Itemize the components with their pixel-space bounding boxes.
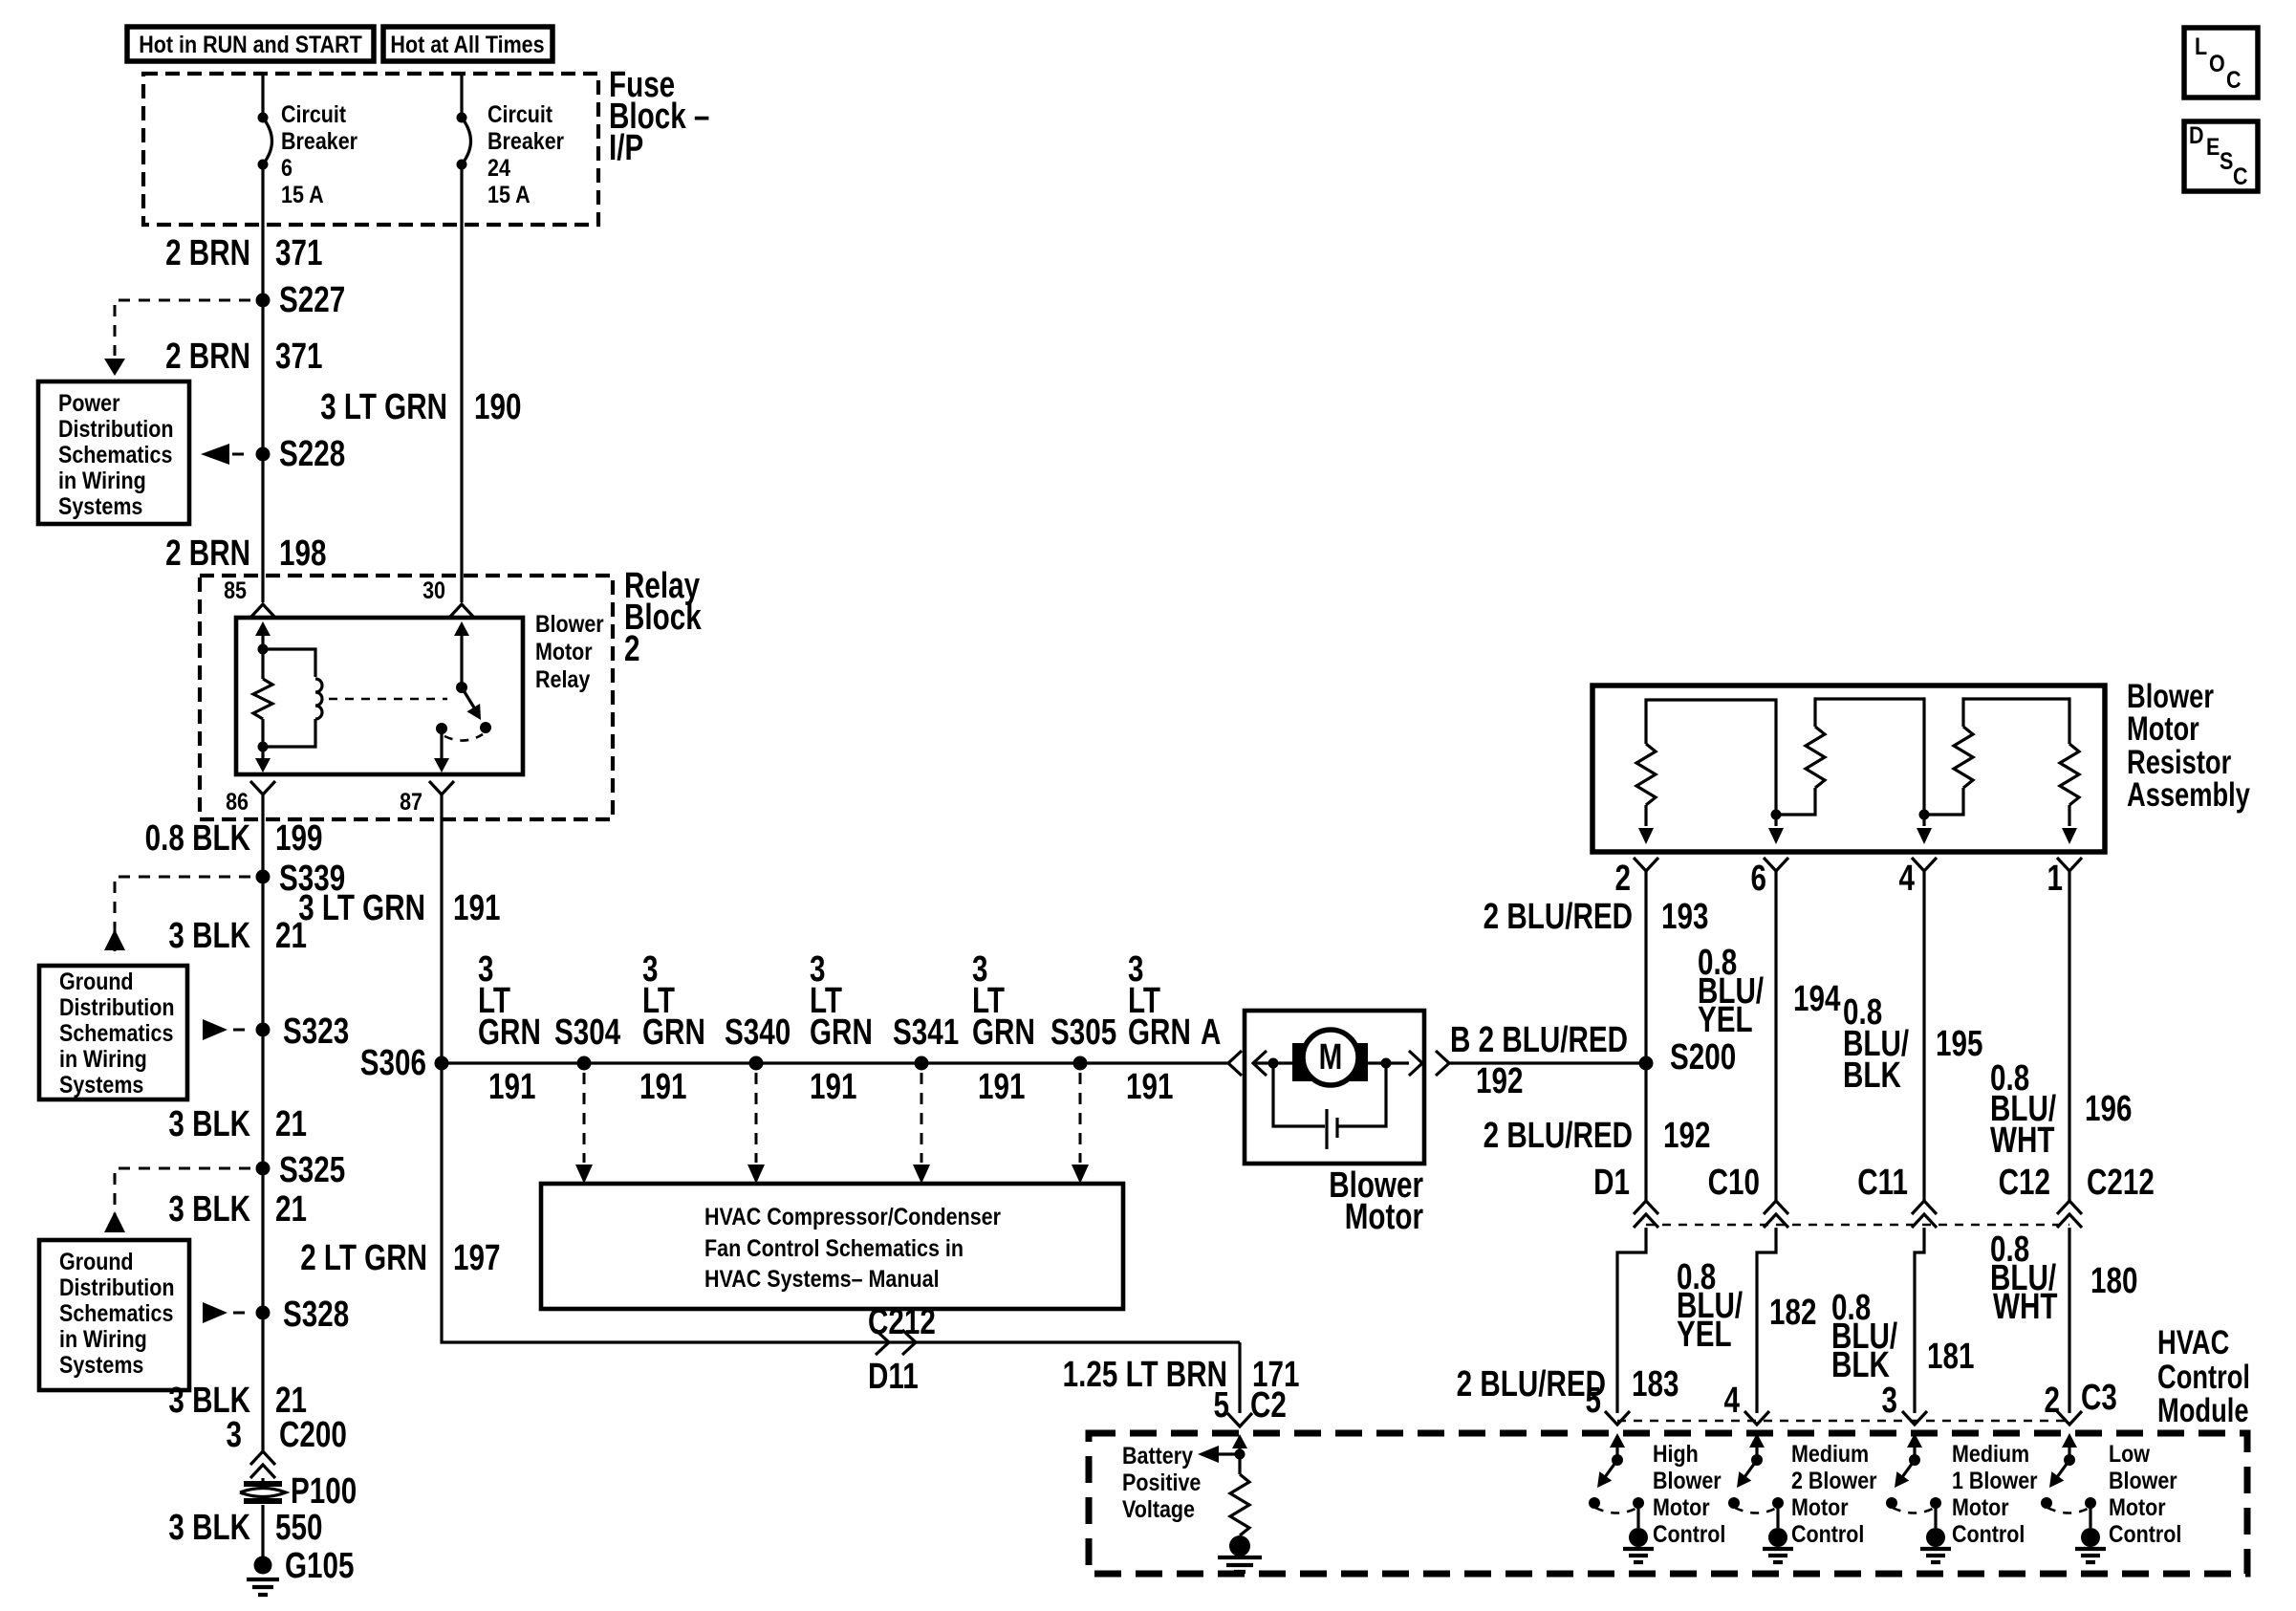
svg-text:S328: S328 — [283, 1295, 349, 1335]
wire: 0.8 BLU/BLK 181 from C11 to module pin 3 — [1915, 1228, 1924, 1413]
svg-text:S228: S228 — [279, 434, 345, 474]
svg-text:D1: D1 — [1593, 1163, 1630, 1203]
relay actuation dashed link — [329, 698, 447, 701]
Blower Motor outline — [1245, 1011, 1424, 1237]
svg-text:Hot at All Times: Hot at All Times — [390, 31, 544, 57]
wire: 3 BLK 21 from S339 to S323 — [261, 877, 264, 1030]
svg-text:Motor: Motor — [1791, 1493, 1849, 1520]
HVAC Control Module dashed enclosure — [1089, 1324, 2250, 1574]
svg-text:181: 181 — [1927, 1337, 1974, 1377]
splice S227 — [256, 280, 346, 320]
svg-text:Low: Low — [2109, 1440, 2151, 1467]
motor suppression capacitor — [1327, 1109, 1337, 1149]
svg-text:192: 192 — [1476, 1061, 1523, 1101]
wire: 2 LT GRN 197 from S306 down to C212 — [442, 1063, 1240, 1342]
svg-text:3 LT GRN: 3 LT GRN — [298, 888, 425, 928]
svg-text:196: 196 — [2085, 1089, 2132, 1129]
relay coil winding — [263, 649, 322, 747]
svg-text:197: 197 — [453, 1238, 500, 1278]
connector C3 boundary dashed line — [1617, 1420, 2069, 1423]
internal pull resistor — [1230, 1454, 1249, 1535]
svg-text:Ground: Ground — [59, 1248, 134, 1274]
svg-text:6: 6 — [1751, 859, 1766, 899]
svg-text:180: 180 — [2090, 1261, 2137, 1301]
svg-text:in Wiring: in Wiring — [58, 467, 146, 493]
svg-text:Systems: Systems — [58, 492, 142, 519]
svg-text:in Wiring: in Wiring — [59, 1325, 147, 1352]
wire label 3 BLK 21 — [168, 1189, 307, 1230]
svg-text:2: 2 — [624, 629, 639, 669]
svg-text:G105: G105 — [285, 1546, 354, 1586]
svg-text:3: 3 — [227, 1415, 242, 1455]
svg-text:0.8 BLK: 0.8 BLK — [145, 818, 251, 859]
wire: 2 BRN 198 from S228 to relay pin 85 — [261, 454, 264, 602]
resistor assembly pin 2 connector — [1615, 858, 1658, 899]
blower motor internal lead A — [1253, 1061, 1292, 1064]
dashed branch from S227 to Power Distribution reference — [104, 300, 250, 376]
svg-text:C3: C3 — [2081, 1378, 2117, 1418]
wire label 2 BLU/RED 183 — [1457, 1364, 1679, 1404]
svg-text:S325: S325 — [279, 1150, 345, 1190]
svg-text:3 BLK: 3 BLK — [168, 1508, 250, 1548]
svg-text:Breaker: Breaker — [281, 127, 357, 154]
wire: Hot in RUN feed into circuit breaker 6 — [261, 74, 264, 118]
svg-text:3 BLK: 3 BLK — [168, 916, 250, 956]
svg-text:Distribution: Distribution — [59, 1274, 175, 1300]
wire label 0.8 BLU/WHT 180 (module pin 2 wire) — [1990, 1230, 2137, 1327]
dashed branch from S305 to HVAC compressor reference — [1072, 1073, 1089, 1184]
motor suppression capacitor branch right — [1337, 1063, 1386, 1126]
splice S339 — [256, 859, 346, 899]
wire: 0.8 BLU/BLK 195 from resistor pin 4 to connector C11 — [1922, 871, 1925, 1201]
relay switch common lead (pin 30 side) — [454, 621, 469, 687]
svg-text:HVAC: HVAC — [2157, 1324, 2229, 1361]
blower motor brush junction right — [1381, 1058, 1392, 1069]
svg-text:5: 5 — [1214, 1385, 1229, 1426]
svg-text:2: 2 — [2045, 1381, 2060, 1421]
splice S305 — [1051, 1012, 1116, 1071]
resistor R2 — [1776, 727, 1825, 815]
reference box: Power Distribution Schematics in Wiring Systems — [38, 381, 189, 524]
svg-text:198: 198 — [279, 533, 326, 574]
wire: 0.8 BLU/YEL 183 from D1 to module pin 5 — [1617, 1228, 1646, 1413]
relay pin 30 connector — [422, 577, 474, 618]
svg-text:Blower: Blower — [2109, 1467, 2177, 1493]
svg-text:WHT: WHT — [1993, 1287, 2058, 1327]
wire through grommet — [261, 1478, 264, 1484]
wire label 3 BLK 21 — [168, 1381, 307, 1421]
wire: 0.8 BLU/WHT 180 from C12 to module pin 2 — [2068, 1228, 2070, 1413]
svg-text:C212: C212 — [868, 1302, 936, 1342]
svg-text:2 BLU/RED: 2 BLU/RED — [1484, 1116, 1633, 1156]
terminal letter B and wire label 2 BLU/RED 192 — [1450, 1020, 1628, 1101]
svg-text:2 BLU/RED: 2 BLU/RED — [1457, 1364, 1606, 1404]
connector C2 pin 5 — [1214, 1385, 1287, 1426]
svg-text:Distribution: Distribution — [59, 993, 175, 1020]
svg-text:Circuit: Circuit — [281, 100, 346, 127]
svg-text:High: High — [1653, 1440, 1699, 1467]
connector C200 pin 3 — [227, 1415, 347, 1478]
wire label 2 BRN 198 — [165, 533, 326, 574]
wire: 3 BLK 550 from P100 to G105 — [261, 1505, 264, 1558]
blower motor internal lead B — [1368, 1061, 1409, 1064]
svg-text:Control: Control — [2157, 1359, 2250, 1396]
svg-text:15 A: 15 A — [487, 181, 531, 207]
splice S323 with arrow from Ground Distribution box — [203, 1012, 349, 1052]
svg-text:C11: C11 — [1857, 1163, 1908, 1203]
svg-text:Fan Control Schematics in: Fan Control Schematics in — [704, 1234, 964, 1261]
wire label 0.8 BLU/YEL (module pin 5 wire) — [1677, 1257, 1744, 1355]
svg-text:C: C — [2226, 66, 2242, 93]
svg-text:191: 191 — [639, 1067, 686, 1107]
svg-text:Distribution: Distribution — [58, 415, 174, 442]
svg-text:193: 193 — [1661, 897, 1708, 937]
wire: 3 BLK 21 from S328 to C200 — [261, 1313, 264, 1451]
svg-text:C12: C12 — [1999, 1163, 2050, 1203]
splice S340 — [725, 1012, 791, 1071]
relay switch movable arm — [462, 687, 487, 724]
wire label 0.8 BLK 199 — [145, 818, 323, 859]
Relay Block 2 dashed enclosure — [200, 566, 702, 819]
svg-text:A: A — [1201, 1012, 1221, 1053]
svg-text:HVAC Systems– Manual: HVAC Systems– Manual — [704, 1265, 940, 1292]
splice S304 — [554, 1012, 620, 1071]
wire: 0.8 BLK 199 from relay pin 86 to S339 — [261, 795, 264, 877]
svg-text:192: 192 — [1663, 1116, 1710, 1156]
svg-text:195: 195 — [1936, 1024, 1982, 1064]
wire: 0.8 BLU/WHT 196 from resistor pin 1 to connector C12 — [2068, 871, 2070, 1201]
svg-text:24: 24 — [487, 154, 510, 181]
svg-text:6: 6 — [281, 154, 292, 181]
wire label 3 BLK 21 — [168, 916, 307, 956]
svg-text:Motor: Motor — [1653, 1493, 1710, 1520]
svg-text:GRN: GRN — [972, 1012, 1035, 1053]
LOC reference box — [2184, 28, 2258, 98]
svg-text:Schematics: Schematics — [59, 1299, 173, 1326]
svg-text:S: S — [2220, 147, 2233, 174]
svg-text:183: 183 — [1632, 1364, 1679, 1404]
svg-text:371: 371 — [275, 337, 322, 377]
splice S325 — [256, 1150, 346, 1190]
svg-text:Control: Control — [1952, 1520, 2025, 1547]
svg-text:21: 21 — [275, 1189, 307, 1230]
svg-text:Ground: Ground — [59, 968, 134, 994]
wire label 3 LT GRN 191 (segment 3) — [810, 949, 873, 1107]
resistor assembly internal link R2-pin4 — [1815, 699, 1924, 815]
relay coil input lead (pin 85 side) — [255, 621, 271, 649]
svg-text:194: 194 — [1793, 979, 1840, 1019]
ground G105 — [247, 1546, 354, 1595]
battery feed arrow inside module — [1232, 1434, 1247, 1454]
svg-text:GRN: GRN — [478, 1012, 541, 1053]
reference box: Ground Distribution Schematics in Wiring Systems (lower) — [39, 1240, 189, 1390]
switch: Low Blower Motor Control — [2041, 1433, 2181, 1547]
svg-text:GRN: GRN — [642, 1012, 705, 1053]
reference box: HVAC Compressor/Condenser Fan Control Schematics — [541, 1184, 1123, 1309]
wire label 3 BLK 21 — [168, 1104, 307, 1144]
connector C212 pin C12 — [1999, 1163, 2082, 1228]
svg-text:Motor: Motor — [1345, 1197, 1423, 1237]
svg-text:S227: S227 — [279, 280, 345, 320]
svg-text:2 Blower: 2 Blower — [1791, 1467, 1877, 1493]
resistor assembly pin 6 connector — [1751, 858, 1788, 899]
wire label 3 LT GRN 191 — [298, 888, 500, 928]
svg-text:C: C — [2233, 163, 2248, 189]
svg-text:Positive: Positive — [1122, 1469, 1201, 1495]
svg-text:Module: Module — [2157, 1392, 2249, 1429]
dashed branch from S325 to Ground Distribution reference (lower) — [104, 1168, 250, 1233]
svg-text:S306: S306 — [360, 1043, 426, 1083]
motor suppression capacitor branch left — [1273, 1063, 1325, 1126]
module pin 3 connector — [1882, 1381, 1927, 1425]
svg-text:Assembly: Assembly — [2127, 776, 2250, 814]
splice S341 — [893, 1012, 959, 1071]
svg-text:M: M — [1319, 1037, 1343, 1078]
wire label 0.8 BLU/BLK 195 — [1843, 992, 1982, 1096]
Blower Motor Resistor Assembly outline — [1592, 678, 2250, 852]
svg-text:1: 1 — [2047, 859, 2063, 899]
resistor R3 — [1924, 727, 1973, 815]
connector B terminal (harness side) — [1436, 1051, 1449, 1076]
switch: High Blower Motor Control — [1589, 1433, 1725, 1547]
svg-text:191: 191 — [1126, 1067, 1173, 1107]
dashed branch from S340 to HVAC compressor reference — [747, 1073, 765, 1184]
wire label 1.25 LT BRN 171 — [1063, 1355, 1300, 1395]
svg-text:I/P: I/P — [609, 128, 643, 168]
wire: 2 BRN 371 from breaker 6 to S227 — [261, 164, 264, 300]
feed label box: Hot at All Times — [383, 27, 552, 61]
junction pin6/R2 — [1771, 810, 1782, 820]
svg-text:2 BRN: 2 BRN — [165, 337, 250, 377]
svg-text:190: 190 — [474, 387, 521, 427]
wire label 0.8 BLU/WHT 196 — [1990, 1058, 2132, 1161]
svg-text:Medium: Medium — [1952, 1440, 2029, 1467]
svg-text:2 BRN: 2 BRN — [165, 233, 250, 273]
svg-text:3 LT GRN: 3 LT GRN — [320, 387, 447, 427]
svg-text:191: 191 — [453, 888, 500, 928]
wire label 2 BLU/RED 193 — [1484, 897, 1709, 937]
svg-text:87: 87 — [400, 788, 422, 815]
svg-text:S341: S341 — [893, 1012, 959, 1053]
svg-text:Control: Control — [1653, 1520, 1725, 1547]
svg-text:HVAC Compressor/Condenser: HVAC Compressor/Condenser — [704, 1203, 1001, 1230]
svg-text:85: 85 — [224, 577, 247, 603]
battery positive voltage tap — [1122, 1442, 1245, 1522]
ground (medium 1 blower switch) — [1920, 1528, 1951, 1562]
svg-text:21: 21 — [275, 1104, 307, 1144]
splice S228 with arrow to Power Distribution box — [201, 434, 345, 474]
svg-text:GRN: GRN — [810, 1012, 873, 1053]
svg-text:Schematics: Schematics — [58, 441, 172, 468]
svg-text:15 A: 15 A — [281, 181, 324, 207]
svg-text:P100: P100 — [291, 1471, 357, 1512]
svg-text:Voltage: Voltage — [1122, 1495, 1195, 1522]
svg-text:L: L — [2195, 33, 2207, 59]
svg-text:1.25 LT BRN: 1.25 LT BRN — [1063, 1355, 1227, 1395]
wire label 2 LT GRN 197 — [300, 1238, 500, 1278]
wire: 0.8 BLU/YEL 182 from C10 to module pin 4 — [1757, 1228, 1776, 1413]
relay pin 85 connector — [224, 577, 275, 618]
svg-text:3 BLK: 3 BLK — [168, 1104, 250, 1144]
svg-text:86: 86 — [226, 788, 249, 815]
ground (low blower switch) — [2075, 1528, 2106, 1562]
resistor R4 (low) on pin 1 leg — [2060, 744, 2079, 844]
blower motor brush junction left — [1268, 1058, 1279, 1069]
svg-text:Circuit: Circuit — [487, 100, 552, 127]
resistor assembly internal link pin2-pin6 — [1646, 700, 1776, 815]
svg-text:BLK: BLK — [1843, 1056, 1901, 1096]
svg-text:GRN: GRN — [1128, 1012, 1191, 1053]
dashed branch from S339 to Ground Distribution reference — [104, 877, 250, 951]
wire label 3 LT GRN 191 (segment 4) — [972, 949, 1035, 1107]
svg-text:191: 191 — [488, 1067, 535, 1107]
svg-text:Motor: Motor — [2127, 710, 2199, 748]
switch: Medium 1 Blower Motor Control — [1886, 1433, 2038, 1547]
svg-text:Battery: Battery — [1122, 1442, 1193, 1469]
svg-text:Medium: Medium — [1791, 1440, 1869, 1467]
resistor assembly pin 1 connector — [2047, 858, 2082, 899]
svg-text:O: O — [2209, 50, 2225, 76]
wire: 3 BLK 21 from S323 to S325 — [261, 1030, 264, 1168]
relay coil output lead (pin 86 side) — [255, 747, 271, 773]
svg-text:D11: D11 — [868, 1357, 919, 1397]
svg-text:Power: Power — [58, 389, 119, 416]
relay pin 86 connector — [226, 781, 275, 815]
wire label 0.8 BLU/BLK (module pin 3 wire) — [1831, 1288, 1898, 1385]
svg-text:4: 4 — [1899, 859, 1916, 899]
svg-text:2 BRN: 2 BRN — [165, 533, 250, 574]
wire label 3 BLK 550 — [168, 1508, 322, 1548]
relay coil resistance element — [253, 649, 272, 747]
relay pin 87 connector — [400, 781, 454, 815]
svg-text:C200: C200 — [279, 1415, 347, 1455]
circuit breaker 24 15A — [457, 100, 565, 207]
svg-text:3: 3 — [1882, 1381, 1897, 1421]
svg-text:E: E — [2206, 133, 2220, 160]
wire: 0.8 BLU/YEL 194 from resistor pin 6 to connector C10 — [1774, 871, 1777, 1201]
splice S328 with arrow from Ground Distribution box — [203, 1295, 349, 1335]
svg-text:199: 199 — [275, 818, 322, 859]
resistor R1 (high) on pin 2 leg — [1636, 744, 1656, 844]
svg-text:YEL: YEL — [1677, 1315, 1732, 1355]
svg-text:WHT: WHT — [1990, 1121, 2055, 1161]
wire label 3 LT GRN 191 (segment 5) with terminal A — [1126, 949, 1221, 1107]
svg-text:2 LT GRN: 2 LT GRN — [300, 1238, 427, 1278]
svg-text:C2: C2 — [1250, 1385, 1287, 1426]
relay coil junction bottom — [258, 742, 269, 752]
pin 6 leg arrow — [1768, 815, 1784, 844]
wire label 0.8 BLU/YEL 194 — [1698, 943, 1840, 1040]
svg-text:4: 4 — [1724, 1381, 1741, 1421]
splice S200 — [1639, 1037, 1737, 1078]
circuit breaker 6 15A — [258, 100, 358, 207]
wire label 3 LT GRN 191 (segment 1) — [478, 949, 541, 1107]
connector C212 pin D11 — [868, 1302, 936, 1397]
svg-text:S304: S304 — [554, 1012, 620, 1053]
svg-text:5: 5 — [1586, 1381, 1601, 1421]
svg-text:30: 30 — [422, 577, 445, 603]
dashed branch from S341 to HVAC compressor reference — [913, 1073, 930, 1184]
splice S306 — [360, 1043, 449, 1083]
svg-text:S200: S200 — [1670, 1037, 1736, 1078]
wire: 3 LT GRN 191 from relay pin 87 to S306 — [440, 795, 443, 1063]
wire label 2 BRN 371 — [165, 233, 322, 273]
svg-text:in Wiring: in Wiring — [59, 1045, 147, 1072]
svg-text:2: 2 — [1615, 859, 1631, 899]
wire: 2 BLU/RED 193 from resistor pin 2 to S200 — [1644, 871, 1647, 1063]
wire: 3 BLK 21 from S325 to S328 — [261, 1168, 264, 1313]
svg-text:S323: S323 — [283, 1012, 349, 1052]
connector A terminal (motor side) — [1253, 1051, 1267, 1076]
grommet P100 — [240, 1471, 357, 1512]
svg-text:C212: C212 — [2087, 1163, 2155, 1203]
switch: Medium 2 Blower Motor Control — [1728, 1433, 1877, 1547]
svg-text:YEL: YEL — [1698, 1000, 1753, 1040]
reference box: Ground Distribution Schematics in Wiring Systems (upper) — [39, 966, 187, 1099]
Blower Motor Relay outline — [236, 610, 604, 774]
svg-text:191: 191 — [810, 1067, 856, 1107]
connector A terminal (harness side) — [1228, 1051, 1242, 1076]
Fuse Block - I/P dashed enclosure — [143, 65, 709, 225]
ground (medium 2 blower switch) — [1763, 1528, 1793, 1562]
svg-text:Hot in RUN and START: Hot in RUN and START — [139, 31, 361, 57]
ground (high blower switch) — [1623, 1528, 1654, 1562]
svg-text:Schematics: Schematics — [59, 1019, 173, 1046]
module pin 5 connector — [1586, 1381, 1630, 1425]
svg-text:Control: Control — [1791, 1520, 1864, 1547]
svg-text:Motor: Motor — [2109, 1493, 2166, 1520]
relay switch travel arc — [444, 734, 483, 741]
wire: 3 LT GRN 190 from breaker 24 to relay pin 30 — [460, 164, 463, 602]
relay coil junction top — [258, 644, 269, 655]
DESC reference box — [2184, 121, 2258, 191]
feed label box: Hot in RUN and START — [127, 27, 374, 61]
module pin 2 connector with C3 label — [2045, 1378, 2117, 1425]
connector B terminal (motor side) — [1409, 1051, 1422, 1076]
svg-text:1 Blower: 1 Blower — [1952, 1467, 2038, 1493]
wire: 2 BLU/RED 192 from S200 to connector D1 — [1644, 1063, 1647, 1201]
svg-text:S340: S340 — [725, 1012, 791, 1053]
svg-text:550: 550 — [275, 1508, 322, 1548]
junction pin4/R3 — [1919, 810, 1930, 820]
svg-text:182: 182 — [1769, 1293, 1816, 1333]
connector C212 boundary dashed line — [1646, 1163, 2155, 1225]
connector C212 pin C11 — [1857, 1163, 1937, 1228]
module pin 4 connector — [1724, 1381, 1769, 1425]
svg-text:Systems: Systems — [59, 1351, 143, 1378]
resistor assembly internal link R3-pin1 — [1963, 699, 2069, 744]
wire label 2 BRN 371 — [165, 337, 322, 377]
wire: 2 BRN 371 from S227 to S228 — [261, 300, 264, 454]
svg-text:Motor: Motor — [1952, 1493, 2009, 1520]
svg-text:Relay: Relay — [535, 665, 590, 692]
svg-text:2 BLU/RED: 2 BLU/RED — [1484, 897, 1633, 937]
svg-text:191: 191 — [978, 1067, 1025, 1107]
svg-text:D: D — [2189, 121, 2204, 148]
svg-text:Blower: Blower — [1653, 1467, 1722, 1493]
svg-text:B 2 BLU/RED: B 2 BLU/RED — [1450, 1020, 1628, 1060]
svg-text:Control: Control — [2109, 1520, 2181, 1547]
svg-text:S305: S305 — [1051, 1012, 1116, 1053]
motor M symbol — [1292, 1030, 1368, 1085]
connector C212 pin C10 — [1708, 1163, 1788, 1228]
relay switch open contact — [480, 722, 491, 733]
svg-text:Motor: Motor — [535, 638, 593, 664]
wire: 1.25 LT BRN 171 down to HVAC control module — [1238, 1342, 1241, 1413]
wire label 2 BLU/RED 192 — [1484, 1116, 1711, 1156]
svg-text:Blower: Blower — [535, 610, 604, 637]
ground (battery sense resistor) — [1218, 1535, 1262, 1572]
